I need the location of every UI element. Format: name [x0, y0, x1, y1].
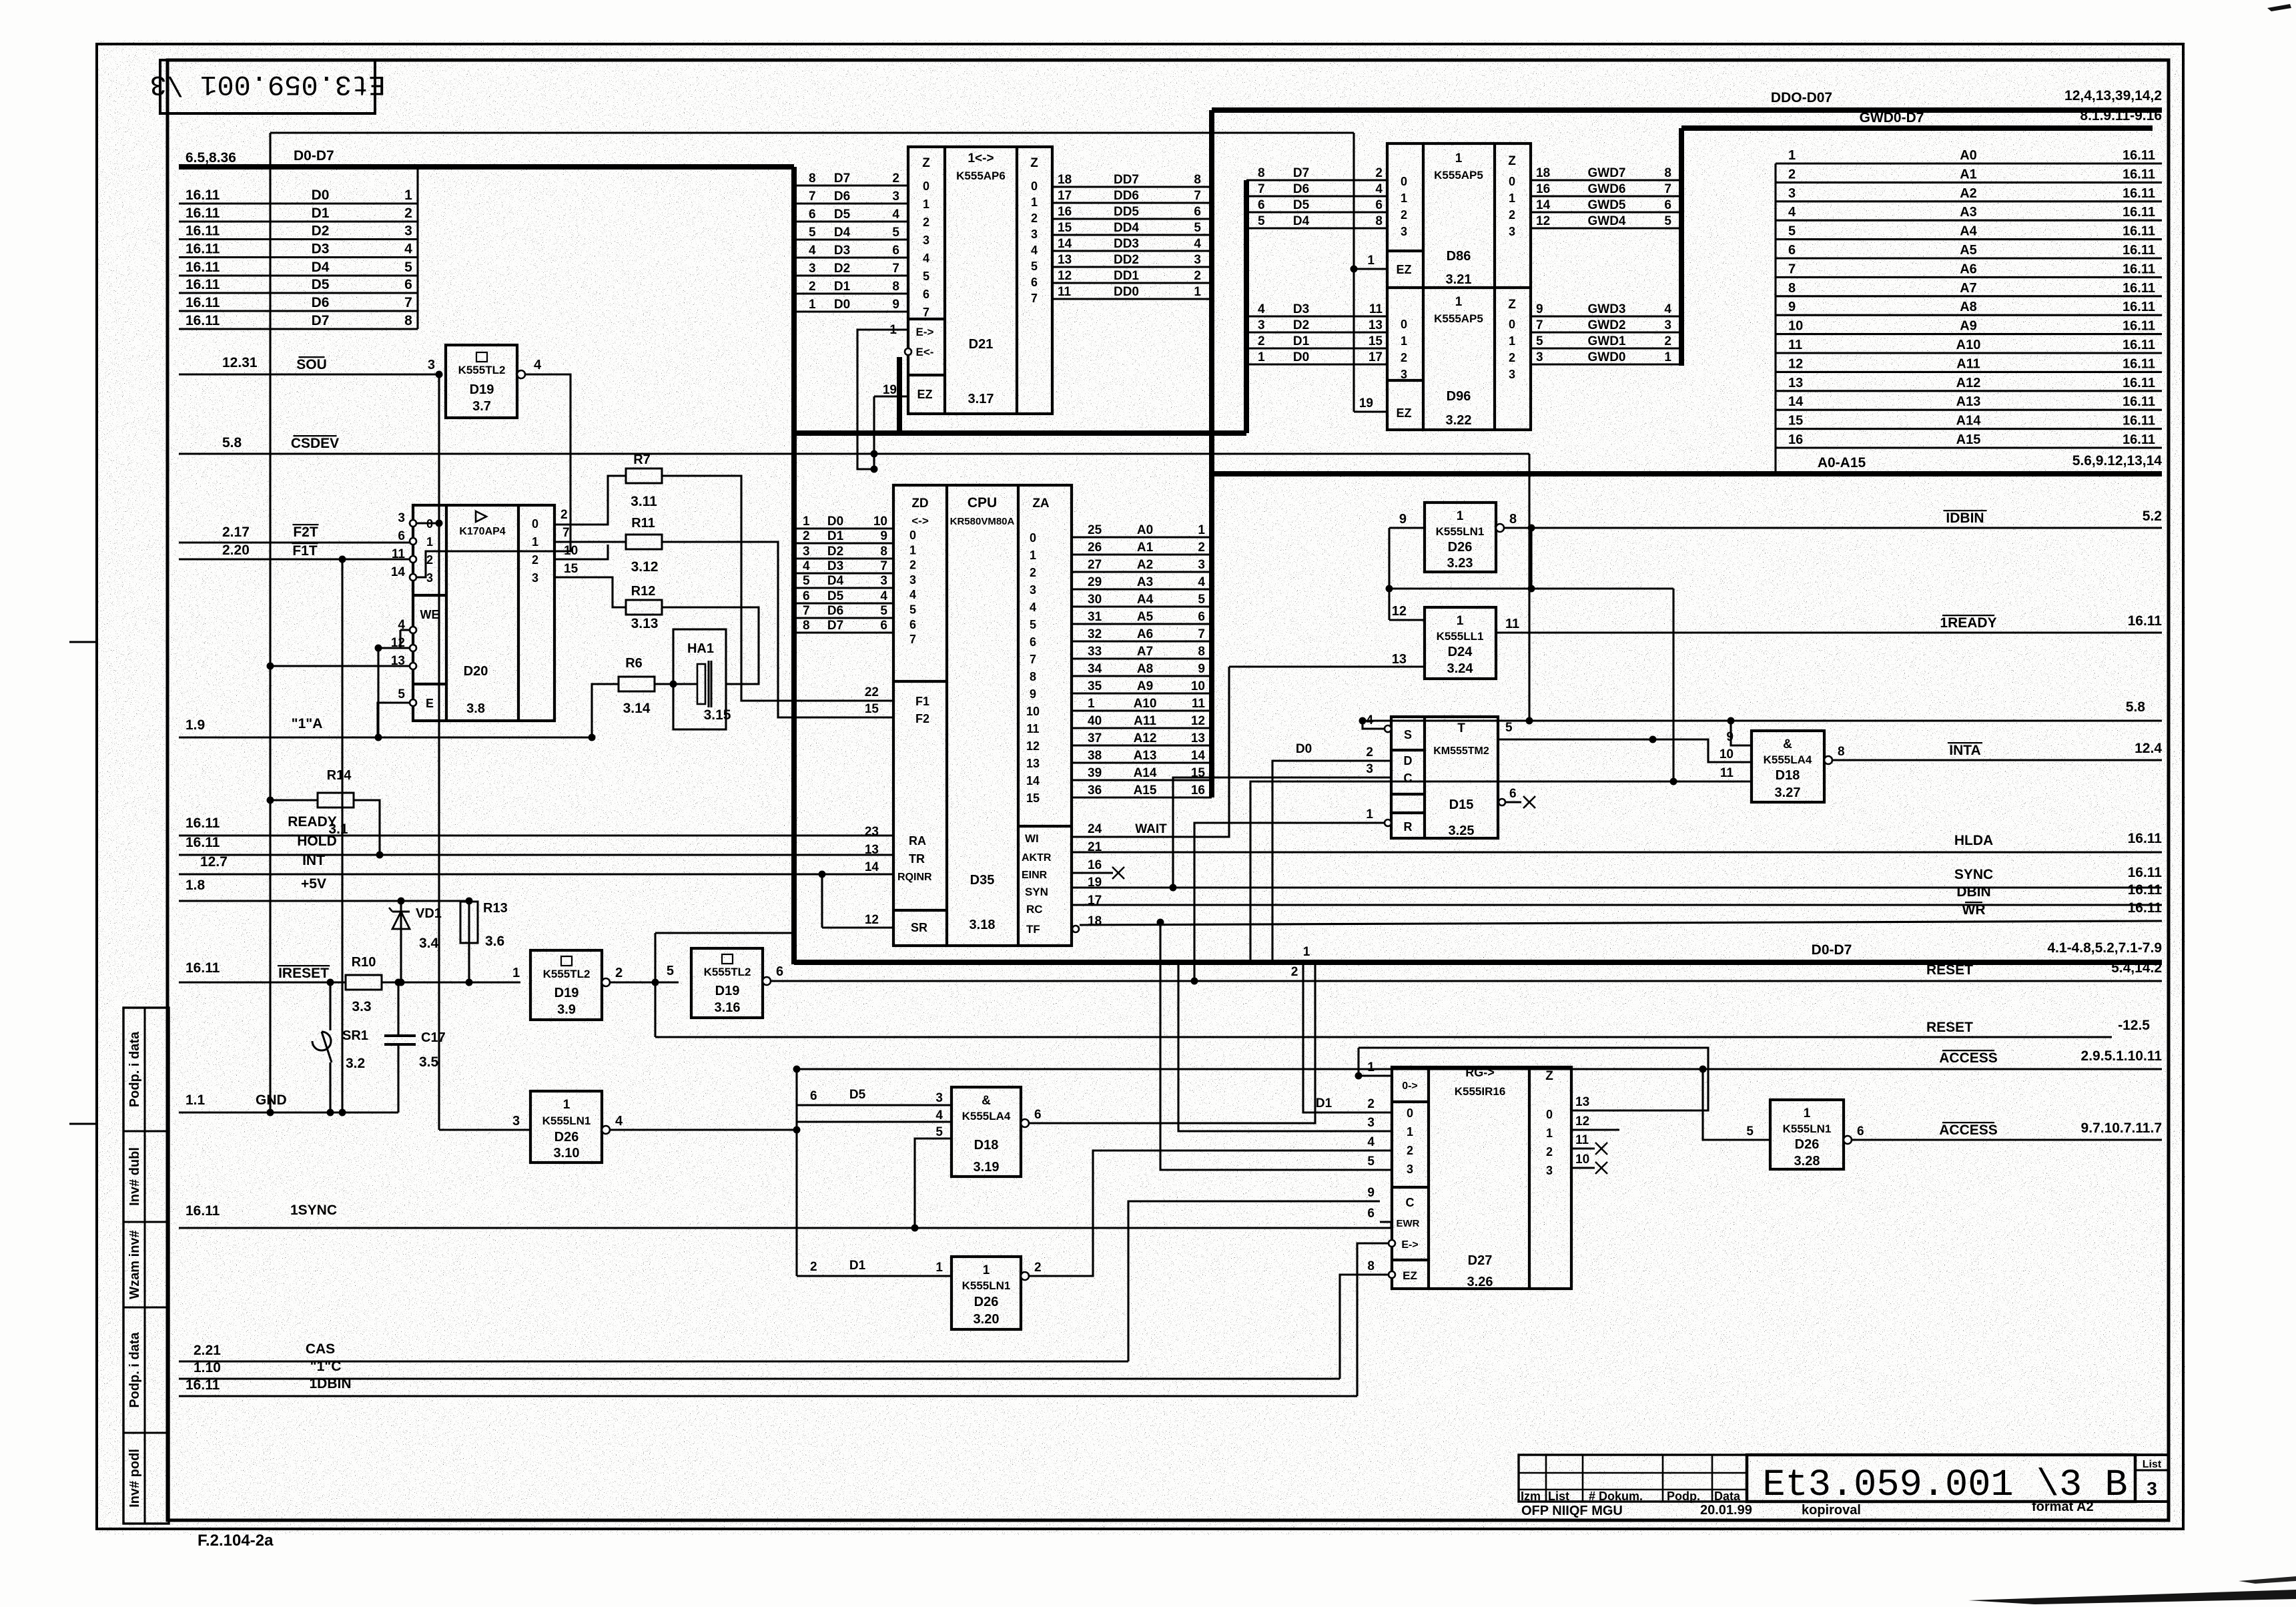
IC D19 (K555TL2) 3.16 [691, 948, 763, 1018]
wire DD4 from D21 pin 15 [1052, 234, 1212, 236]
wire D20 out1 to R11 [554, 541, 626, 543]
address table collector vertical [1774, 164, 1776, 474]
wire DD6 from D21 pin 17 [1052, 202, 1212, 204]
wire 1DBIN to D27 E pin [1357, 1243, 1388, 1396]
fold mark left upper [69, 641, 97, 643]
wire D7 to D21 pin 2 [794, 184, 908, 186]
wire D27 pin13 up-left [1359, 1048, 1708, 1110]
wire D21 EZ to CSDEV [874, 395, 908, 397]
pin 4 of D19 3.7 [517, 370, 525, 378]
pin 1 R of D15 [1385, 820, 1391, 826]
wire A15 row (right table) [1776, 446, 2162, 448]
wire D0 to D21 pin 9 [794, 310, 908, 312]
wire D0 row (left table) [179, 202, 418, 204]
wire DD7 from D21 pin 18 [1052, 186, 1212, 188]
wire IDBIN feedback loop [1388, 528, 1390, 620]
wire RESET to D15 R [1194, 823, 1385, 981]
wire A5 from CPU pin 31 [1072, 623, 1212, 625]
inner drawing frame [167, 60, 2169, 1520]
wire WAIT to D24 pin13 [1229, 665, 1425, 667]
IC D35 (KR580VM80A) CPU 3.18 [893, 485, 1072, 946]
node ACCESS line 2.9.5.1.10.11 [797, 1068, 2162, 1070]
wire CSDEV 5.8 to D15 S [1363, 721, 1385, 729]
rail drop to D96 EZ x=2029 [1353, 133, 1355, 412]
wire D2 to D21 pin 7 [794, 274, 908, 276]
wire D6 to D21 pin 3 [794, 202, 908, 204]
bus D0-D7 horizontal (top) [179, 164, 794, 170]
wire 5.8 line right portion [1363, 719, 2162, 721]
wire A9 row (right table) [1776, 333, 2162, 335]
wire D5 row to D18 pin3 [797, 1104, 951, 1106]
top-left stamp box with inverted document number [160, 60, 375, 113]
switch SR1 3.2 [329, 982, 331, 1030]
fold mark left lower [69, 1123, 97, 1125]
wire pin5 E down [378, 703, 410, 737]
pin 4 S of D15 [1385, 725, 1391, 732]
IC D18 (K555LA4) NAND 3.27 [1752, 731, 1824, 802]
wire stub y=1398 to bus [655, 932, 794, 934]
long vertical rail x=405 [269, 133, 271, 1112]
bus GWD0-D7 horizontal [1681, 125, 2153, 131]
wire D26 3.10 output to vertical x=1194 [610, 1129, 797, 1131]
wire vertical x=1194 to D5/D1 rows [795, 1069, 797, 1276]
wire D18 3.19 out to bus bit1 [1029, 964, 1315, 1123]
wire D3 row (left table) [179, 256, 418, 258]
bus D0-D7 lower horizontal [794, 960, 2162, 965]
IC D26 (K555LN1) 3.23 [1425, 503, 1496, 572]
wire D5 to D21 pin 4 [794, 220, 908, 222]
IC D26 (K555LN1) 3.28 [1770, 1100, 1844, 1169]
wire A13 row (right table) [1776, 409, 2162, 411]
pin 2 of D19 3.9 [602, 978, 610, 986]
wire D20 WE tie 4-12 [400, 629, 410, 631]
pin 19 EZ of D96 [1354, 410, 1387, 412]
wire junction vertical x=982 [654, 933, 656, 1037]
wire D2 to CPU pin 8 [794, 557, 893, 559]
wire D6 row (left table) [179, 310, 418, 312]
wire D2 row (left table) [179, 238, 418, 240]
wire A11 row (right table) [1776, 371, 2162, 373]
pin 6 of D26 3.28 output - ACCESS line [1844, 1136, 1852, 1144]
wire A6 row (right table) [1776, 276, 2162, 278]
corner mark top right [2267, 4, 2291, 11]
wire D20 out0 to R7 [554, 476, 626, 525]
wire R6 left lead to 1A rail [592, 684, 619, 737]
wire D1 to D96 pin 15 [1246, 347, 1387, 349]
wire GWD7 from D86 pin 18 [1531, 179, 1681, 181]
wire A6 from CPU pin 32 [1072, 640, 1212, 642]
pin 4 of D26 3.10 [602, 1126, 610, 1134]
wire SR pin [822, 926, 893, 928]
wire D4 to D21 pin 5 [794, 238, 908, 240]
wire WR to D27 pin5 [1160, 922, 1392, 1170]
wire ACCESS to D26 3.28 [1703, 1069, 1770, 1140]
wire R10 to D19 3.9 pin1 [382, 981, 520, 983]
wire D15 Q to D18 3.27 [1498, 739, 1752, 762]
IC D15 (KM555TM2) flip-flop 3.25 [1391, 717, 1498, 838]
wire GWD6 from D86 pin 16 [1531, 195, 1681, 197]
IC D21 (K555AP6) data bus buffer 3.17 [908, 147, 1052, 414]
thick wire y=649 bus to D86 inputs [794, 430, 1246, 436]
wire A5 row (right table) [1776, 257, 2162, 259]
wire SOU branch to D26 3.10 pin 3 [439, 1129, 530, 1131]
IC D19 (K555TL2) 3.9 [530, 950, 602, 1020]
wire A13 from CPU pin 38 [1072, 761, 1212, 763]
wire R7 to CPU F1 [662, 476, 893, 701]
pin 6 output of D15 unconnected [1499, 799, 1505, 806]
D21 enable sub-box [908, 318, 945, 320]
wire GWD2 from D96 pin 7 [1531, 331, 1681, 333]
wire A4 from CPU pin 30 [1072, 605, 1212, 607]
wire A9 from CPU pin 35 [1072, 692, 1212, 694]
IC D86/D96 (K555AP5 x2) write data buffers 3.21/3.22 [1387, 143, 1531, 430]
thick vertical DE stub x=1348 [897, 357, 902, 433]
IC D19 (K555TL2) Schmitt trigger 3.7 [446, 345, 517, 418]
wire "1"C to D27 EZ pin [1340, 1275, 1388, 1379]
wire D3 to D21 pin 6 [794, 256, 908, 258]
wire DD5 from D21 pin 16 [1052, 218, 1212, 220]
wire A14 row (right table) [1776, 428, 2162, 430]
wire F1T branch down x=513 [341, 559, 343, 1112]
wire GWD3 from D96 pin 9 [1531, 315, 1681, 317]
title block List cell [2135, 1455, 2169, 1502]
wire 1SYNC to D27 EWR [1380, 1222, 1391, 1228]
IC D20 (K170AP4) clock generator 3.8 [413, 505, 554, 721]
IC D26 (K555LN1) inverter 3.10 [530, 1091, 602, 1163]
wire D21 E-> control [857, 330, 908, 469]
wire A14 from CPU pin 39 [1072, 779, 1212, 781]
wire D6 to D86 pin 4 [1246, 195, 1387, 197]
IC D26 (K555LN1) 3.20 [951, 1257, 1021, 1329]
wire DD3 from D21 pin 14 [1052, 250, 1212, 252]
wire D4 to D86 pin 8 [1246, 227, 1387, 229]
left table collector vertical to bus [416, 167, 418, 329]
wire CSDEV corner down x=2292 [1528, 454, 1530, 721]
wire D3 to CPU pin 7 [794, 572, 893, 574]
wire SOU branch down to D26 3.10 input [438, 374, 440, 1130]
crystal HA1 3.15 [673, 629, 726, 729]
pin 1 EZ of D86 [1354, 268, 1387, 270]
wire D20 out2 [554, 545, 608, 559]
pin 6 of D19 3.16 [763, 977, 771, 985]
wire D1 to CPU pin 9 [794, 542, 893, 544]
wire A7 from CPU pin 33 [1072, 657, 1212, 659]
wire 5.8 line to D18 pin9 [1731, 721, 1752, 745]
wire A0 from CPU pin 25 [1072, 536, 1212, 538]
thick vertical x=1868 to D86/D96 inputs [1244, 180, 1249, 433]
wire D4 row (left table) [179, 274, 418, 276]
pin 5 of D20 E section [410, 699, 416, 706]
wire D19 3.9 out to D19 3.16 in [610, 981, 679, 983]
IC D18 (K555LA4) NAND 3.19 [951, 1087, 1021, 1177]
pins 3,6,11,14 of D20 [410, 520, 416, 527]
wire WE to 1A rail x=567 [377, 648, 379, 737]
wire D1 row (left table) [179, 220, 418, 222]
node RESET line to -12.5 [655, 1036, 2112, 1038]
wire to D15 C [1173, 777, 1391, 888]
wire A1 row (right table) [1776, 182, 2162, 184]
capacitor C17 3.5 [397, 982, 399, 1036]
wire R14 to HOLD [354, 800, 380, 855]
wire A3 from CPU pin 29 [1072, 588, 1212, 590]
pin 2 of D26 3.20 output [1021, 1272, 1029, 1280]
title block revision table [1519, 1455, 1747, 1502]
wire D5 row (left table) [179, 292, 418, 294]
IC D27 (K555IR16) register 3.26 [1392, 1067, 1571, 1289]
wire D0 bus bit to D15 D [1272, 761, 1391, 964]
wire R11 to CPU F2 [662, 542, 893, 717]
wire GWD5 from D86 pin 14 [1531, 211, 1681, 213]
bus DD0-DD7 horizontal to right [1212, 107, 2162, 113]
bus A0-A15 horizontal [1212, 471, 2162, 476]
wire D27 pin12 [1571, 1129, 1619, 1131]
wire D26 3.20 out to D27 pin4 [1029, 1151, 1392, 1276]
IC D24 (K555LL1) 3.24 [1425, 607, 1496, 679]
wire branch to D20 pin3 [436, 520, 443, 527]
left margin label column [123, 1008, 169, 1524]
wire DD0 from D21 pin 11 [1052, 298, 1212, 300]
wire DD1 from D21 pin 12 [1052, 282, 1212, 284]
wire A7 row (right table) [1776, 295, 2162, 297]
wire D1 bit to D27 pin2 [1303, 964, 1392, 1112]
rail top horizontal y=199 [270, 131, 1354, 133]
diode VD1 3.4 [400, 901, 402, 982]
wire SR1 to GND [329, 1081, 331, 1112]
bus D0-D7 vertical drop x=1190 [791, 167, 797, 964]
pin 8 of D18 3.27 - INTA line [1824, 756, 1832, 764]
bus DD0-DD7 vertical x=1816 [1209, 110, 1214, 797]
scan smudge bottom right [1968, 1590, 2296, 1604]
wire D0 to CPU pin 10 [794, 527, 893, 529]
wire D19 3.7 output loop [413, 374, 570, 577]
wire CAS up to D27 C pin [1128, 1201, 1380, 1361]
wire 1SYNC to D18 pin5 [915, 1139, 951, 1228]
wire D5 to CPU pin 4 [794, 602, 893, 604]
wire A2 from CPU pin 27 [1072, 571, 1212, 573]
wire A0 row (right table) [1776, 162, 2162, 164]
title block document number cell [1747, 1455, 2135, 1502]
wire A12 row (right table) [1776, 390, 2162, 392]
wire GWD4 from D86 pin 12 [1531, 227, 1681, 229]
wire pin13 to rail x=405 [270, 665, 410, 667]
wire D6 to CPU pin 5 [794, 617, 893, 619]
wire R12 to crystal HA1 [662, 607, 759, 684]
wire WAIT to D24 [1072, 667, 1229, 837]
wire D27 pin1 feedback [1359, 1048, 1392, 1076]
wire D4 to CPU pin 3 [794, 587, 893, 589]
wire A3 row (right table) [1776, 220, 2162, 222]
wire GWD1 from D96 pin 5 [1531, 347, 1681, 349]
wire A8 from CPU pin 34 [1072, 675, 1212, 677]
scan noise overlay [0, 0, 1, 1]
wire D7 row (left table) [179, 328, 418, 330]
wire D1 row to D26 3.20 [797, 1275, 951, 1277]
wire A1 from CPU pin 26 [1072, 553, 1212, 555]
wire A8 row (right table) [1776, 314, 2162, 316]
resistor R13 3.6 [468, 901, 470, 982]
node IDBIN line [1504, 527, 2162, 529]
wire GWD0 from D96 pin 3 [1531, 363, 1681, 365]
wire long to D18 pin11 [1250, 781, 1752, 964]
wire D7 to CPU pin 6 [794, 631, 893, 633]
node RESET output line 5.4,14.2 [771, 980, 2162, 982]
wire A10 row (right table) [1776, 352, 2162, 354]
wire A12 from CPU pin 37 [1072, 744, 1212, 746]
wire DD2 from D21 pin 13 [1052, 266, 1212, 268]
wire A15 from CPU pin 36 [1072, 796, 1212, 798]
wire D1 to D21 pin 8 [794, 292, 908, 294]
wire D2 to D96 pin 13 [1246, 331, 1387, 333]
pins 4,12,13 of D20 WE section [410, 627, 416, 633]
wire A10 from CPU pin 1 [1072, 709, 1212, 711]
wire A11 from CPU pin 40 [1072, 727, 1212, 729]
wire A4 row (right table) [1776, 238, 2162, 240]
wire D26 3.23 input [1389, 527, 1425, 529]
wire to D27 pin3 [1178, 964, 1392, 1131]
wire D7 to D86 pin 2 [1246, 179, 1387, 181]
pin 6 of D18 3.19 output [1021, 1119, 1029, 1127]
wire D0 to D96 pin 17 [1246, 363, 1387, 365]
wire D20 out3 to R12 [554, 577, 626, 607]
pin 8 of D26 3.23 [1496, 524, 1504, 532]
wire D5 to D86 pin 6 [1246, 211, 1387, 213]
bus GWD0-D7 vertical x=2520 [1679, 128, 1684, 366]
wire A2 row (right table) [1776, 200, 2162, 202]
wire D3 to D96 pin 11 [1246, 315, 1387, 317]
